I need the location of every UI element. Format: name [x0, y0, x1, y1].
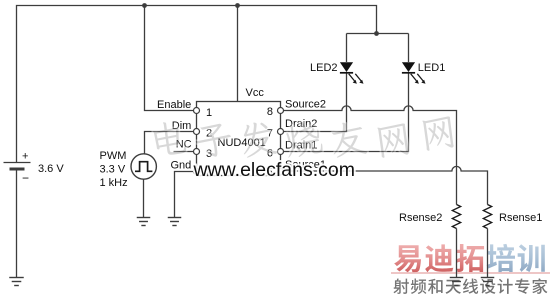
pin 5: [278, 169, 284, 175]
svg-text:Rsense2: Rsense2: [399, 212, 442, 224]
pin 2: [194, 129, 200, 135]
resistor Rsense2: [452, 205, 460, 229]
svg-text:Enable: Enable: [157, 99, 191, 111]
pin 8: [278, 108, 284, 114]
svg-text:8: 8: [267, 106, 273, 118]
svg-text:+: +: [22, 151, 28, 163]
pin 4: [194, 169, 200, 175]
wire: Dim to PWM source: [145, 132, 194, 154]
IC U1 NUD4001 body: [197, 102, 281, 176]
node: LED rail junction: [374, 31, 379, 36]
svg-text:1: 1: [206, 107, 212, 119]
wire: Drain1 pin6 to LED1: [284, 74, 409, 152]
svg-text:PWM: PWM: [100, 150, 127, 162]
wire: Gnd pin to ground: [175, 172, 194, 218]
wire: Drain2 pin7 to LED2: [284, 74, 347, 132]
ground: battery: [9, 277, 24, 279]
ground: Rsense2: [450, 277, 464, 279]
wire: Vcc riser: [237, 6, 239, 102]
svg-text:1 kHz: 1 kHz: [100, 177, 128, 189]
pin 6: [278, 149, 284, 155]
svg-text:Vcc: Vcc: [246, 87, 265, 99]
ground: PWM: [137, 217, 151, 219]
watermark: www.elecfans.com: [193, 159, 355, 181]
pin 1: [194, 108, 200, 114]
svg-text:www.elecfans.com: www.elecfans.com: [193, 159, 355, 181]
svg-text:Rsense1: Rsense1: [499, 212, 542, 224]
LED1: [408, 34, 410, 63]
svg-text:3.6 V: 3.6 V: [38, 163, 64, 175]
resistor Rsense1: [483, 205, 491, 229]
wire: enable riser and enable wire: [145, 6, 194, 111]
wire: LED top rail: [347, 33, 409, 35]
svg-text:LED1: LED1: [418, 62, 446, 74]
wire: battery to ground: [16, 171, 18, 278]
svg-text:Source2: Source2: [285, 98, 326, 110]
svg-text:3.3 V: 3.3 V: [100, 164, 126, 176]
logo: red watermark yiditu training: [391, 244, 550, 295]
wire: Rsense1 to ground: [487, 229, 489, 278]
pin 7: [278, 129, 284, 135]
watermark: elecfans chinese glyphs: [152, 116, 454, 159]
svg-text:Gnd: Gnd: [171, 160, 192, 172]
node: Vcc riser junction: [235, 3, 240, 8]
wire: PWM to ground: [143, 179, 145, 217]
pin 3: [194, 149, 200, 155]
wire: NC stub: [174, 151, 194, 153]
wire: Source2 pin8 to Rsense2 with hops: [284, 106, 457, 205]
ground: Rsense1: [481, 277, 495, 279]
wire: Rsense2 to ground: [456, 229, 458, 278]
svg-text:LED2: LED2: [310, 62, 338, 74]
source V1 PWM: [131, 154, 156, 179]
wire: Vcc top rail: [17, 6, 377, 163]
LED2: [346, 34, 348, 63]
ground: Gnd pin: [168, 217, 182, 219]
svg-text:−: −: [22, 171, 29, 185]
node: enable riser junction: [142, 3, 147, 8]
battery BT1 3.6V: [4, 162, 31, 164]
wire: Source1 pin5 to Rsense1 with hop: [284, 166, 488, 204]
